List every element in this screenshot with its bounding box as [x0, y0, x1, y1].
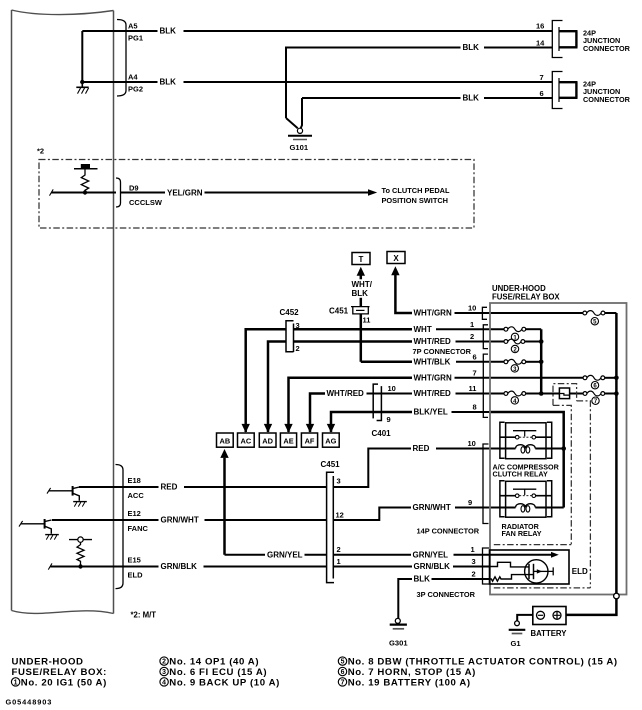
svg-text:7: 7 [473, 368, 477, 377]
svg-text:BLK: BLK [414, 575, 431, 584]
connector C452 (in-line, pins 3 and 2) [280, 308, 300, 353]
svg-text:GRN/WHT: GRN/WHT [161, 516, 199, 525]
ground G1 [509, 621, 526, 648]
svg-text:A4: A4 [128, 73, 138, 82]
svg-text:BLK: BLK [352, 289, 369, 298]
node boxes AB AC AD AE AF AG (C451 destinations) [217, 433, 340, 447]
svg-text:AF: AF [305, 437, 315, 446]
connector bracket 14P at fuse box [483, 444, 489, 524]
svg-text:2: 2 [472, 569, 476, 578]
24P junction connector (bottom) [540, 72, 631, 109]
svg-text:14P CONNECTOR: 14P CONNECTOR [417, 526, 480, 535]
svg-text:C451: C451 [329, 307, 349, 316]
svg-text:E15: E15 [128, 556, 141, 565]
under-hood fuse/relay box outline [490, 284, 627, 595]
dash-dot grouping lines around component and ELD [494, 384, 591, 588]
svg-text:10: 10 [468, 304, 476, 313]
svg-text:No. 6 FI ECU (15 A): No. 6 FI ECU (15 A) [169, 667, 267, 678]
ground G101 [288, 128, 312, 152]
svg-text:GRN/YEL: GRN/YEL [413, 550, 449, 559]
wire WHT/GRN from node X to under-hood fuse box pin 10 [391, 266, 583, 317]
svg-text:WHT: WHT [414, 325, 432, 334]
svg-text:3: 3 [337, 476, 341, 485]
connector bracket 7P pin 10 at fuse box [482, 307, 487, 319]
svg-text:No. 7 HORN, STOP (15 A): No. 7 HORN, STOP (15 A) [348, 667, 476, 678]
wire WHT/RED from fuse 2 through C452 pin 2 to node AD [264, 332, 504, 433]
svg-text:PG2: PG2 [128, 85, 143, 94]
main bus from fuse 5 to battery [561, 313, 618, 615]
wire GRN/YEL from node AB through C451 pin 2 to ELD (3P pin 1) [225, 545, 491, 559]
wire BLK from G101 to 24P junction connector pin 6 [301, 94, 553, 129]
svg-text:No. 9 BACK UP (10 A): No. 9 BACK UP (10 A) [169, 677, 280, 688]
svg-text:2: 2 [162, 659, 166, 666]
svg-text:2: 2 [470, 332, 474, 341]
svg-text:X: X [393, 254, 399, 263]
connector C451 (in-line, pin 11) [329, 307, 370, 325]
svg-text:1: 1 [471, 545, 475, 554]
svg-text:WHT/RED: WHT/RED [414, 337, 452, 346]
svg-text:14: 14 [536, 38, 545, 47]
svg-text:2: 2 [337, 545, 341, 554]
connector bracket 7P pins 1,2 at fuse box [483, 325, 488, 349]
svg-text:9: 9 [468, 498, 472, 507]
svg-text:2: 2 [296, 344, 300, 353]
svg-text:No. 14 OP1 (40 A): No. 14 OP1 (40 A) [169, 657, 259, 668]
ECM/PCM box (torn-edge outline) [12, 10, 114, 614]
wire WHT/BLK row to fuse 3 (7P pin 6) [361, 352, 504, 366]
wire YEL/GRN from D9/CCCLSW to clutch pedal position switch [50, 188, 378, 197]
svg-text:1: 1 [14, 680, 18, 687]
svg-text:T: T [359, 255, 364, 264]
resistor (pull-up) above clutch switch pin D9 [74, 164, 98, 195]
svg-text:FUSE/RELAY BOX: FUSE/RELAY BOX [492, 292, 560, 301]
svg-text:CCCLSW: CCCLSW [129, 198, 163, 207]
svg-text:POSITION SWITCH: POSITION SWITCH [382, 196, 449, 205]
connector C401 (in-line, pins 10 and 9) [372, 384, 396, 438]
svg-text:7: 7 [540, 73, 544, 82]
wire GRN/WHT from E12/FANC through C451 pin 12 to 14P pin 9 (fan relay coil) [52, 498, 506, 524]
svg-text:3P CONNECTOR: 3P CONNECTOR [417, 590, 476, 599]
connector bracket pins E18/E12/E15 [116, 465, 149, 589]
fuse 5 (No.8 DBW) [583, 311, 617, 326]
fuse 2 (No.14 OP1) [504, 339, 541, 353]
svg-text:WHT/BLK: WHT/BLK [414, 357, 451, 366]
svg-text:FANC: FANC [128, 524, 149, 533]
svg-text:7P CONNECTOR: 7P CONNECTOR [413, 347, 472, 356]
svg-text:*2: *2 [37, 147, 44, 156]
svg-text:BLK: BLK [160, 78, 177, 87]
svg-text:FAN RELAY: FAN RELAY [502, 529, 542, 538]
connector bracket pin D9 [116, 178, 163, 207]
internal bus from fuse 1 down to wire 11 [539, 329, 544, 396]
svg-text:6: 6 [341, 669, 345, 676]
ELD (electrical load detector) box [490, 550, 589, 584]
resistor (ELD pull-up) inside ECM [69, 537, 92, 569]
wire WHT/GRN from fuse 6 to node AE (7P pin 7) [284, 368, 584, 432]
wire WHT from fuse 1 through C452 pin 3 to node AC [242, 320, 505, 433]
svg-text:WHT/RED: WHT/RED [327, 389, 365, 398]
wire WHT/BLK from C451 pin 11 down to 7P pin 6 row [360, 314, 363, 362]
dashed option box *2 (M/T) [37, 147, 474, 229]
svg-text:1: 1 [470, 320, 474, 329]
svg-text:E18: E18 [128, 476, 141, 485]
svg-text:FUSE/RELAY BOX:: FUSE/RELAY BOX: [12, 667, 107, 678]
svg-text:*2: M/T: *2: M/T [131, 611, 157, 620]
svg-text:No. 8 DBW (THROTTLE ACTUATOR C: No. 8 DBW (THROTTLE ACTUATOR CONTROL) (1… [348, 657, 618, 668]
radiator fan relay [500, 481, 564, 538]
svg-text:AE: AE [283, 437, 293, 446]
svg-text:7: 7 [341, 680, 345, 687]
svg-text:WHT/RED: WHT/RED [414, 389, 452, 398]
node circle where bus leaves fuse box [614, 593, 620, 599]
svg-text:GRN/BLK: GRN/BLK [161, 562, 198, 571]
svg-text:GRN/WHT: GRN/WHT [413, 503, 451, 512]
svg-text:RED: RED [413, 444, 430, 453]
24P junction connector (top) [536, 21, 631, 58]
svg-text:WHT/GRN: WHT/GRN [414, 309, 452, 318]
wire BLK from ELD (3P pin 2) to ground G301 [398, 569, 490, 618]
wire link A5 to A4 inside ECM [81, 31, 83, 82]
transistor Q2 (FANC driver) inside ECM [19, 519, 59, 540]
svg-text:11: 11 [469, 384, 477, 393]
svg-text:5: 5 [341, 659, 345, 666]
svg-text:G101: G101 [290, 143, 309, 152]
svg-text:To CLUTCH PEDAL: To CLUTCH PEDAL [382, 186, 450, 195]
connector bracket 3P at fuse box [483, 548, 490, 584]
svg-text:C401: C401 [372, 429, 392, 438]
battery [531, 607, 568, 639]
fuse 4 (No.9 BACK UP) [504, 391, 541, 405]
svg-text:3: 3 [162, 669, 166, 676]
svg-text:GRN/YEL: GRN/YEL [267, 550, 303, 559]
component (relay control module) on wire 11 [541, 388, 569, 399]
wire BLK from A4/PG2 to 24P junction connector pin 7 [126, 78, 552, 87]
svg-text:D9: D9 [129, 184, 139, 193]
svg-text:BLK: BLK [463, 43, 480, 52]
svg-text:No. 20 IG1 (50 A): No. 20 IG1 (50 A) [21, 677, 107, 688]
svg-text:No. 19 BATTERY (100 A): No. 19 BATTERY (100 A) [348, 677, 471, 688]
node X (to sheet X) [387, 252, 405, 264]
wire battery negative to ground G1 [517, 615, 533, 621]
wire BLK from G101 to 24P junction connector pin 14 [286, 43, 552, 128]
svg-text:PG1: PG1 [128, 34, 143, 43]
wire GRN/BLK from E15/ELD through C451 pin 1 to ELD gate (3P pin 3) [48, 557, 490, 571]
svg-text:RED: RED [161, 483, 178, 492]
svg-text:AC: AC [241, 437, 252, 446]
legend: under-hood fuse/relay box key [11, 657, 617, 689]
connector bracket pins A5/A4 [117, 20, 143, 97]
svg-text:4: 4 [162, 680, 166, 687]
node T (to sheet T) [352, 253, 370, 265]
svg-text:AG: AG [325, 437, 336, 446]
svg-text:CLUTCH RELAY: CLUTCH RELAY [493, 469, 548, 478]
svg-text:10: 10 [388, 384, 396, 393]
svg-text:ELD: ELD [128, 570, 144, 579]
ground G301 [389, 618, 408, 647]
svg-text:9: 9 [387, 415, 391, 424]
svg-text:E12: E12 [128, 509, 141, 518]
svg-text:AD: AD [262, 437, 273, 446]
svg-text:16: 16 [536, 22, 544, 31]
svg-text:BLK: BLK [463, 94, 480, 103]
svg-text:ELD: ELD [572, 567, 588, 576]
svg-text:ACC: ACC [128, 491, 145, 500]
wire BLK from A5/PG1 to 24P junction connector pin 16 [126, 27, 552, 36]
svg-text:A5: A5 [128, 22, 138, 31]
svg-text:G05448903: G05448903 [6, 698, 53, 707]
svg-text:C452: C452 [280, 308, 300, 317]
svg-text:G301: G301 [389, 639, 408, 648]
svg-text:CONNECTOR: CONNECTOR [583, 44, 631, 53]
svg-text:BLK: BLK [160, 27, 177, 36]
wire WHT/RED from fuse 4 through C401 to node AF (7P pin 11) [306, 384, 504, 433]
svg-text:BLK/YEL: BLK/YEL [414, 408, 448, 417]
junction dot on A4 wire [80, 80, 84, 84]
transistor Q1 (ACC driver) inside ECM [47, 486, 87, 507]
svg-text:GRN/BLK: GRN/BLK [414, 562, 451, 571]
svg-text:WHT/: WHT/ [352, 280, 373, 289]
svg-text:11: 11 [363, 316, 371, 325]
fuse 1 (No.20 IG1) [504, 327, 541, 342]
wire BLK/YEL from relay coils through C401 to node AG (7P pin 8) [327, 402, 564, 507]
svg-text:10: 10 [468, 439, 476, 448]
svg-text:12: 12 [336, 510, 344, 519]
svg-text:3: 3 [472, 557, 476, 566]
fuse 6 (No.7 HORN,STOP) [583, 375, 616, 389]
wire RED from E18/ACC through C451 pin 3 to 14P pin 10 (A/C relay coil) [79, 439, 506, 492]
connector C451 (in-line, pins 3,12,2,1) [321, 460, 344, 583]
svg-text:C451: C451 [321, 460, 341, 469]
svg-text:6: 6 [540, 89, 544, 98]
wire WHT/BLK from C451 pin 11 up to node T [352, 267, 373, 307]
svg-text:AB: AB [220, 437, 231, 446]
svg-text:CONNECTOR: CONNECTOR [583, 95, 631, 104]
svg-text:1: 1 [337, 557, 341, 566]
svg-text:G1: G1 [511, 639, 522, 648]
svg-text:WHT/GRN: WHT/GRN [414, 373, 452, 382]
connector bracket 7P pins 6,7,11,8 at fuse box [483, 354, 488, 417]
wire GRN/YEL from C451 pin 2 up into node AB [220, 449, 228, 555]
label: To Clutch Pedal Position Switch [382, 186, 450, 205]
svg-text:BATTERY: BATTERY [531, 629, 568, 638]
svg-text:6: 6 [473, 352, 477, 361]
fuse 7 (No.19 BATTERY) [570, 391, 617, 405]
A/C compressor clutch relay [493, 422, 564, 478]
svg-text:8: 8 [473, 402, 477, 411]
svg-text:UNDER-HOOD: UNDER-HOOD [12, 657, 84, 668]
fuse 3 (No.6 FI ECU) [504, 359, 541, 372]
svg-text:YEL/GRN: YEL/GRN [167, 188, 203, 197]
chassis ground inside ECM (below A4 link) [76, 82, 88, 94]
